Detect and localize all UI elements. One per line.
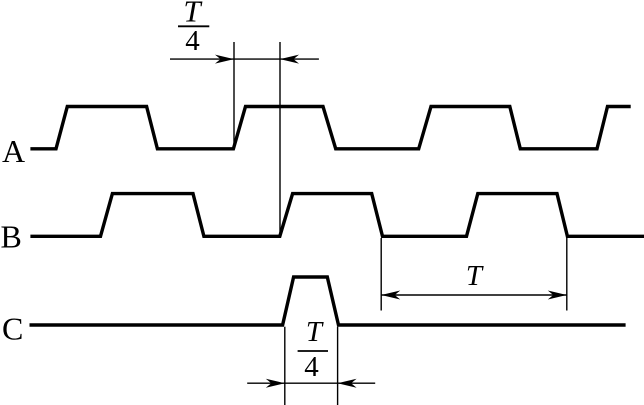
- svg-text:B: B: [1, 219, 22, 255]
- bottom dimension line T/4: [247, 382, 375, 384]
- svg-text:T: T: [306, 316, 324, 348]
- top dimension line T/4: [170, 58, 319, 60]
- svg-text:C: C: [2, 311, 23, 347]
- dimension line T: [381, 294, 567, 296]
- svg-text:A: A: [2, 133, 25, 169]
- label T/4 top: fraction bar: [178, 25, 209, 27]
- svg-text:4: 4: [304, 351, 319, 383]
- svg-text:T: T: [466, 260, 484, 292]
- svg-text:T: T: [183, 0, 203, 28]
- extension line at B falling edge left (x=381): [380, 238, 382, 311]
- bottom left arrowhead pointing right: [266, 379, 285, 388]
- T right arrowhead pointing right: [548, 291, 567, 300]
- top right arrowhead pointing left: [280, 55, 299, 64]
- bottom right arrowhead pointing left: [338, 379, 357, 388]
- signal B waveform: [30, 194, 644, 237]
- label T/4 bottom: fraction bar: [298, 350, 328, 352]
- extension line at C pulse right (x=337.6): [337, 327, 339, 405]
- signal C waveform: [30, 277, 626, 325]
- top left arrowhead pointing right: [215, 55, 234, 64]
- signal A waveform: [30, 107, 630, 149]
- T left arrowhead pointing left: [381, 291, 400, 300]
- extension line at A rising edge (x=234): [233, 42, 235, 149]
- extension line at C pulse left (x=284.8): [284, 327, 286, 405]
- extension line at B rising edge (x=280): [279, 42, 281, 235]
- svg-text:4: 4: [185, 25, 200, 57]
- extension line at B falling edge right (x=567): [566, 238, 568, 311]
